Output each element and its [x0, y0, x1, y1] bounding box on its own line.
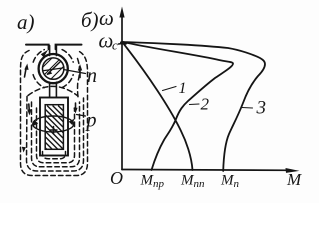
x-axis arrowhead: [286, 168, 300, 173]
support bar left segment: [26, 45, 49, 50]
flux arrow lower-right: [75, 103, 77, 110]
dashed right outer arc near disc: [78, 59, 80, 98]
ring around disc: [39, 54, 68, 83]
eddy loop arrowhead right: [69, 119, 75, 126]
disc torque arrow: [48, 62, 61, 75]
origin knot of curves: [122, 41, 126, 44]
omega_c tick: [119, 43, 123, 46]
curve 1: [123, 43, 193, 170]
svg-text:п: п: [87, 65, 97, 87]
curve 2: [123, 42, 233, 170]
flux arrowhead bottom-left: [22, 147, 26, 153]
x-axis: [122, 169, 292, 172]
dashed flux loop U2: [27, 97, 84, 172]
dashed flux loop U5: [43, 152, 66, 159]
disc hatching: [39, 45, 70, 88]
disc (rotor) outline: [43, 58, 64, 79]
outer dashed flux loop: [21, 51, 88, 176]
dashed dome arc over electromagnet: [28, 86, 78, 96]
svg-text:ω: ω: [99, 6, 114, 30]
svg-text:1: 1: [179, 80, 187, 97]
svg-text:р: р: [85, 110, 97, 132]
svg-text:б): б): [81, 8, 99, 32]
shaft upper neck: [50, 46, 57, 56]
svg-text:О: О: [110, 168, 123, 188]
eddy current loop across core: [33, 116, 74, 132]
leader to curve label 1: [163, 87, 177, 91]
shaft lower neck: [50, 82, 57, 97]
dashed flux arc lower-left of disc: [33, 75, 44, 88]
svg-text:Мпп: Мпп: [180, 173, 205, 191]
flux up-arrow right of disc: [79, 69, 81, 78]
y-axis arrowhead: [119, 7, 124, 18]
svg-text:2: 2: [201, 95, 210, 114]
leader to curve label 3: [242, 107, 253, 110]
dashed flux arc lower-right of disc: [62, 75, 73, 88]
core inner rectangle: [45, 105, 63, 150]
leader to label р: [77, 115, 86, 117]
curve 3: [123, 42, 265, 171]
core hatching: [42, 106, 63, 152]
flux arrow lower-left: [28, 104, 31, 111]
dashed flux loop U4: [37, 108, 75, 163]
core plus mark: [50, 127, 57, 134]
svg-text:Мп: Мп: [220, 173, 240, 191]
svg-text:М: М: [286, 170, 302, 189]
flux arrow upper-left: [25, 67, 27, 77]
dashed flux arc upper-right of disc: [62, 50, 73, 63]
y-axis: [121, 14, 123, 170]
support bar right segment: [56, 45, 82, 50]
svg-text:с: с: [112, 38, 118, 53]
arrow on upper-left arc: [41, 50, 48, 58]
disc diameter line: [44, 68, 63, 71]
dashed flux loop U3: [32, 102, 80, 167]
leader to curve label 2: [190, 103, 200, 106]
leader to label П: [64, 70, 86, 74]
svg-text:3: 3: [256, 98, 267, 119]
svg-text:а): а): [17, 10, 35, 34]
electromagnet outer box: [40, 98, 68, 156]
eddy loop arrowhead left: [32, 120, 38, 127]
svg-text:Мпр: Мпр: [140, 173, 165, 191]
dashed flux arc upper-left of disc: [33, 50, 44, 63]
